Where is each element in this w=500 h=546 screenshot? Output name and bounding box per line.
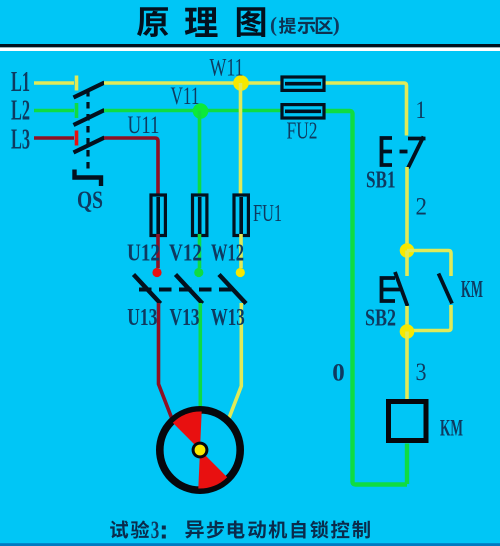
wire L2 in (34, 109, 74, 113)
title underline black (0, 44, 500, 47)
svg-text:L2: L2 (11, 95, 30, 126)
wire U-phase dark red with corner (104, 138, 158, 196)
wire SB2 to node3 (405, 306, 409, 331)
contact KM linkage dashed (139, 288, 234, 292)
svg-text:SB1: SB1 (366, 168, 396, 194)
svg-text:V13: V13 (170, 305, 200, 331)
wire W11 vertical down to FU1 (239, 83, 243, 196)
terminal tick L3 (75, 131, 79, 146)
svg-text:3: 3 (416, 359, 427, 386)
wire branch to KM aux (407, 251, 451, 277)
terminal tick L2 (75, 103, 79, 118)
terminal tick L1 (75, 76, 79, 91)
coil KM box (389, 402, 427, 441)
bottom strip (0, 543, 500, 546)
wire fuse3 to contact (239, 234, 243, 268)
svg-text:U13: U13 (127, 305, 157, 331)
motor hub black (192, 442, 209, 459)
svg-text:L1: L1 (11, 67, 30, 98)
wire W-phase top yellow (104, 81, 282, 85)
wire node2 down to SB2 (405, 251, 409, 277)
wire fuse1 to contact (156, 234, 160, 268)
title (提示区) (270, 13, 340, 37)
motor fan blade lower (198, 450, 227, 489)
svg-text:V12: V12 (169, 241, 202, 267)
contact KM blade pole3 (219, 275, 246, 304)
wire green FU2 to corner down to 0 rail (324, 111, 407, 485)
svg-text:KM: KM (440, 416, 463, 441)
svg-text:L3: L3 (11, 124, 30, 155)
svg-text:W13: W13 (211, 305, 245, 331)
motor fan blade upper (173, 411, 202, 450)
node V11 dot (193, 103, 209, 119)
contact KM blade pole1 (134, 275, 161, 304)
fuse FU1 element 2 (193, 195, 207, 236)
button SB2 blade (395, 272, 408, 306)
svg-text:FU1: FU1 (253, 201, 282, 227)
wire node3 to coil (405, 332, 409, 402)
contact KM pole1 terminal dot (152, 268, 161, 277)
fuse FU2 element B (282, 105, 324, 118)
switch QS linkage dashed (86, 90, 89, 172)
svg-text:U12: U12 (127, 241, 160, 267)
contact KM pole3 terminal dot (236, 268, 245, 277)
svg-text:0: 0 (332, 360, 345, 387)
caption 试验3： (110, 517, 166, 544)
wire KM aux down to node3 (407, 305, 451, 331)
svg-text:U11: U11 (128, 112, 160, 139)
wire yellow FU2 to corner down (325, 83, 407, 136)
motor hub yellow (195, 445, 206, 456)
switch QS blade pole1 (74, 83, 105, 98)
node 2 dot (400, 243, 415, 258)
svg-text:3: 3 (151, 517, 160, 544)
node W11 dot (233, 75, 249, 91)
motor ring (160, 410, 240, 490)
fuse FU2 element A (282, 77, 324, 90)
svg-text:W12: W12 (211, 241, 244, 267)
fuse FU1 element 3 (234, 195, 248, 236)
wire fuse2 to contact (198, 234, 202, 268)
wire L1 in (34, 81, 74, 85)
switch QS blade pole2 (74, 110, 105, 125)
contact KM pole2 terminal dot (194, 268, 203, 277)
svg-text:W11: W11 (210, 55, 244, 82)
svg-text:SB2: SB2 (365, 306, 396, 332)
svg-text:FU2: FU2 (287, 119, 318, 145)
svg-text:1: 1 (416, 97, 427, 124)
title underline white (0, 47, 500, 51)
button SB1 actuator E (382, 138, 393, 165)
node 3 dot (400, 324, 415, 339)
button SB2 actuator E (382, 278, 401, 301)
contact KM aux blade (439, 274, 453, 304)
fuse FU1 element 1 (151, 195, 165, 236)
svg-text:QS: QS (77, 187, 103, 214)
button SB1 NC top bar (408, 137, 426, 141)
contact KM blade pole2 (176, 275, 203, 304)
wire L3 in (34, 136, 74, 140)
svg-text:): ) (333, 13, 340, 37)
button SB1 blade (408, 137, 424, 169)
button SB1 link dash (400, 150, 408, 154)
caption 异步电动机自锁控制 (185, 520, 369, 538)
wire V11 vertical down to FU1 (198, 111, 202, 197)
svg-text:(: ( (270, 13, 277, 37)
switch QS handle bracket (75, 170, 102, 187)
wire coil bottom green (405, 444, 409, 485)
wire contact3 down to motor (228, 303, 242, 422)
wire SB1 to node2 (405, 167, 409, 245)
wire contact1 down to motor (159, 303, 175, 424)
wire V-phase green (104, 109, 282, 113)
svg-text:KM: KM (461, 277, 483, 303)
wire contact2 down to motor (199, 303, 203, 414)
svg-text:2: 2 (416, 194, 428, 221)
svg-text:V11: V11 (171, 83, 200, 110)
title 原 理 图 (137, 7, 265, 37)
switch QS blade pole3 (74, 138, 105, 153)
